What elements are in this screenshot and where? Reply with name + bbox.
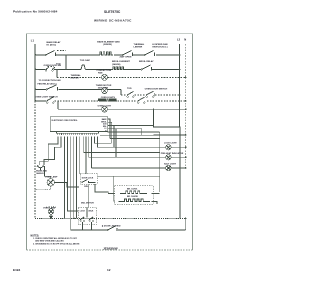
wire harness drop 9 [94, 137, 111, 144]
wire branch convection dashed [56, 70, 58, 78]
svg-text:2. GROUNDED NO. IS IN OFF STYL: 2. GROUNDED NO. IS IN OFF STYLE IN ALL A… [33, 242, 80, 245]
resistor bake element [100, 52, 113, 55]
switch S2 thermal [123, 51, 133, 56]
wire harness drop 1b staircase B [44, 137, 61, 165]
node junction N branch [185, 77, 187, 79]
wire harness drop 8 [90, 137, 92, 168]
node junction N rung4 [185, 100, 187, 102]
svg-text:DOOR LOCK: DOOR LOCK [82, 178, 94, 180]
svg-text:TO CONVECTION FAN: TO CONVECTION FAN [39, 79, 62, 82]
lamp oven lamp B [48, 209, 54, 215]
svg-text:BROIL RELAY: BROIL RELAY [139, 60, 154, 63]
wire EOC pin 1 [108, 119, 110, 138]
rung 5 wire [57, 101, 59, 109]
bottom rung wire [71, 219, 186, 231]
svg-text:TOD: TOD [56, 64, 61, 66]
switch S5 broil relay [142, 65, 152, 70]
wire EOC pin 2 [108, 122, 112, 143]
resistor broil outer [119, 199, 151, 202]
svg-text:BAKE RELAY: BAKE RELAY [47, 41, 62, 44]
lamp oven lamp A [47, 179, 54, 186]
switch S3 hi-speed fan [145, 51, 155, 56]
dual broil dashed box [115, 186, 154, 205]
svg-text:N: N [184, 37, 186, 41]
svg-text:OVEN LAMP: OVEN LAMP [43, 206, 56, 209]
node junction dotted harness [74, 218, 76, 220]
wire EOC pin 3 dashed [108, 124, 154, 126]
svg-text:OVEN LIGHT SWITCH: OVEN LIGHT SWITCH [35, 96, 58, 98]
wire broil box left feed [108, 176, 114, 201]
node junction L2 rung3 [179, 94, 181, 96]
wire harness drop 3 [67, 137, 78, 211]
svg-text:L2: L2 [177, 37, 181, 41]
svg-text:BR. 1600W: BR. 1600W [127, 196, 138, 198]
wire EOC pin 4 dashed [108, 129, 142, 135]
wire link rung1-rung2 [65, 55, 67, 70]
svg-text:UNLK: UNLK [88, 210, 94, 212]
resistor broil inner [120, 191, 147, 194]
svg-text:SLET975C: SLET975C [104, 10, 121, 14]
wire row indicator 3 [91, 167, 185, 169]
node junction link rung2 [65, 69, 67, 71]
wire EOC pin 6 dashed [100, 134, 154, 136]
wire lattice row 138.4 [110, 137, 160, 139]
svg-text:L1: L1 [31, 39, 35, 43]
motor oven light [102, 106, 108, 112]
switch MDL 1 [80, 217, 84, 220]
svg-text:3000 RPM: 3000 RPM [98, 88, 109, 90]
MDL motor box [78, 207, 96, 224]
wire EOC pin 5 dashed [108, 131, 160, 133]
wire L2 rail [179, 44, 181, 126]
rung 1 wire [35, 54, 179, 56]
thermal cutout bump [81, 65, 85, 70]
fuse thermal protector [38, 166, 43, 170]
svg-text:OVEN DOOR SWITCH: OVEN DOOR SWITCH [145, 89, 168, 91]
svg-text:FAN: FAN [98, 71, 103, 74]
rung 4 wire [35, 100, 46, 102]
svg-text:E194: E194 [13, 268, 21, 272]
svg-text:Publication No 5995A2-N84: Publication No 5995A2-N84 [13, 10, 58, 14]
switch S10 latch switch [138, 97, 145, 101]
svg-text:(3400W): (3400W) [112, 63, 121, 66]
lamp lock indicator [166, 145, 171, 150]
svg-text:MDL MOTOR: MDL MOTOR [81, 203, 94, 205]
wire harness drop 12 [88, 137, 90, 158]
switch S7 TOD [127, 92, 134, 96]
svg-text:ELECTRONIC OVEN CONTROL: ELECTRONIC OVEN CONTROL [52, 120, 79, 122]
wire row indicator 2 [89, 156, 186, 158]
switch MDL 2 [89, 217, 93, 220]
wire harness drop 1 staircase A [40, 137, 58, 165]
EOC box [50, 117, 107, 132]
svg-text:FAN RELAY (EOC): FAN RELAY (EOC) [38, 82, 57, 85]
wire EOC riser 113.8 [113, 125, 115, 147]
svg-text:TOD 140F: TOD 140F [80, 59, 91, 62]
wire lamp B stub [50, 214, 52, 218]
switch S8 oven door [146, 91, 154, 96]
wire harness drop 4 [70, 137, 72, 219]
node junction L1 rung2 [34, 69, 36, 71]
wire MDL divider [86, 207, 88, 217]
node junction L1 rung4 [34, 100, 36, 102]
node junction L2 rung2 [179, 69, 181, 71]
svg-text:LOCK LIGHT: LOCK LIGHT [164, 143, 177, 145]
svg-text:LIMITER: LIMITER [134, 47, 143, 49]
wire lattice row 135 [154, 134, 186, 136]
svg-text:TOD: TOD [127, 88, 132, 90]
svg-text:SWITCH (N.O.): SWITCH (N.O.) [152, 46, 167, 48]
wire actuator dash S1 [57, 49, 66, 51]
lamp oven lamp B rays [46, 206, 56, 208]
wire riser x159.6 [159, 132, 161, 192]
wire N rail dashed [185, 44, 187, 168]
switch S9 oven light sw [47, 97, 55, 101]
motor convection fan [102, 74, 108, 80]
wire fuse to lamp [44, 166, 51, 179]
node junction L1 rung1 [34, 54, 36, 56]
svg-text:JES6500W: JES6500W [103, 247, 118, 251]
node junction dotted N [185, 218, 187, 220]
switch S1 bake relay contact [46, 51, 56, 56]
wire harness drop 7 [85, 137, 87, 174]
wire harness drop 10 [96, 137, 98, 148]
rung 3 wire left [35, 90, 121, 96]
wire lamp A bottom riser [35, 186, 51, 190]
wire EOC riser 115.8 [115, 129, 117, 158]
wire N rail lower [185, 219, 187, 231]
svg-text:250F OPEN: 250F OPEN [120, 57, 132, 59]
wire L2 jog path [154, 109, 181, 218]
svg-text:◆ DOOR LATCHED: ◆ DOOR LATCHED [101, 225, 121, 228]
switch door latch [108, 226, 118, 231]
wire lamp A right [54, 182, 79, 187]
wire lattice row 176.3 [97, 175, 160, 177]
wire harness drop 11 [84, 137, 160, 153]
wire harness drop 6 [79, 137, 81, 174]
EOC connector comb [57, 132, 99, 134]
switch door lock [82, 180, 95, 184]
svg-text:WIRING SC-N5AA75C: WIRING SC-N5AA75C [94, 18, 132, 22]
wire L1 rail upper [34, 44, 36, 101]
svg-text:LIMITER: LIMITER [71, 77, 80, 79]
switch S6 fan relay [47, 85, 58, 91]
switch S4 oven door switch [46, 67, 55, 69]
rung 3 wire right dashed [121, 94, 180, 96]
svg-text:BR. CONV.: BR. CONV. [127, 188, 138, 190]
svg-text:K1 (EOC): K1 (EOC) [47, 44, 57, 46]
door lock switch box [80, 174, 97, 184]
node junction L1 rung3 [34, 89, 36, 91]
svg-text:SHIELD: SHIELD [36, 173, 44, 175]
wire broil box right exit [152, 194, 160, 205]
svg-text:OVEN LAMP: OVEN LAMP [45, 176, 58, 179]
wire harness drop 5b [75, 137, 77, 219]
lamp preheat indicator [166, 155, 171, 160]
svg-text:(2850W): (2850W) [103, 44, 112, 46]
resistor broil element [113, 67, 125, 70]
wire dotted bottom run [35, 218, 186, 220]
svg-text:LOCK: LOCK [80, 210, 86, 212]
wire row indicator 1 [97, 146, 185, 148]
svg-text:AND NEW OVEN AND CALLING: AND NEW OVEN AND CALLING [35, 240, 64, 243]
wire MDL stubs to rung [82, 222, 91, 230]
svg-text:SALT LIGHT: SALT LIGHT [164, 163, 177, 166]
node junction L2 rung1 [179, 54, 181, 56]
svg-text:NOTES:: NOTES: [31, 235, 40, 237]
rung 2 wire [35, 69, 179, 71]
lamp bake indicator [166, 165, 171, 170]
wire harness drop 5 [72, 137, 74, 219]
node junction N rung5 [185, 108, 187, 110]
resistor oven lights [98, 99, 117, 101]
svg-text:OVEN LIGHT: OVEN LIGHT [98, 106, 112, 108]
motor cooling fan [102, 88, 108, 94]
connector X symbol [50, 216, 53, 219]
svg-text:PRE-HEAT INDICATOR: PRE-HEAT INDICATOR [161, 152, 184, 155]
wire door lock drops [89, 184, 109, 207]
schematic border frame [27, 34, 193, 250]
wire L1 rail lower dashed [34, 101, 36, 219]
wire harness drop 2 [63, 137, 65, 219]
svg-text:12: 12 [107, 268, 111, 272]
